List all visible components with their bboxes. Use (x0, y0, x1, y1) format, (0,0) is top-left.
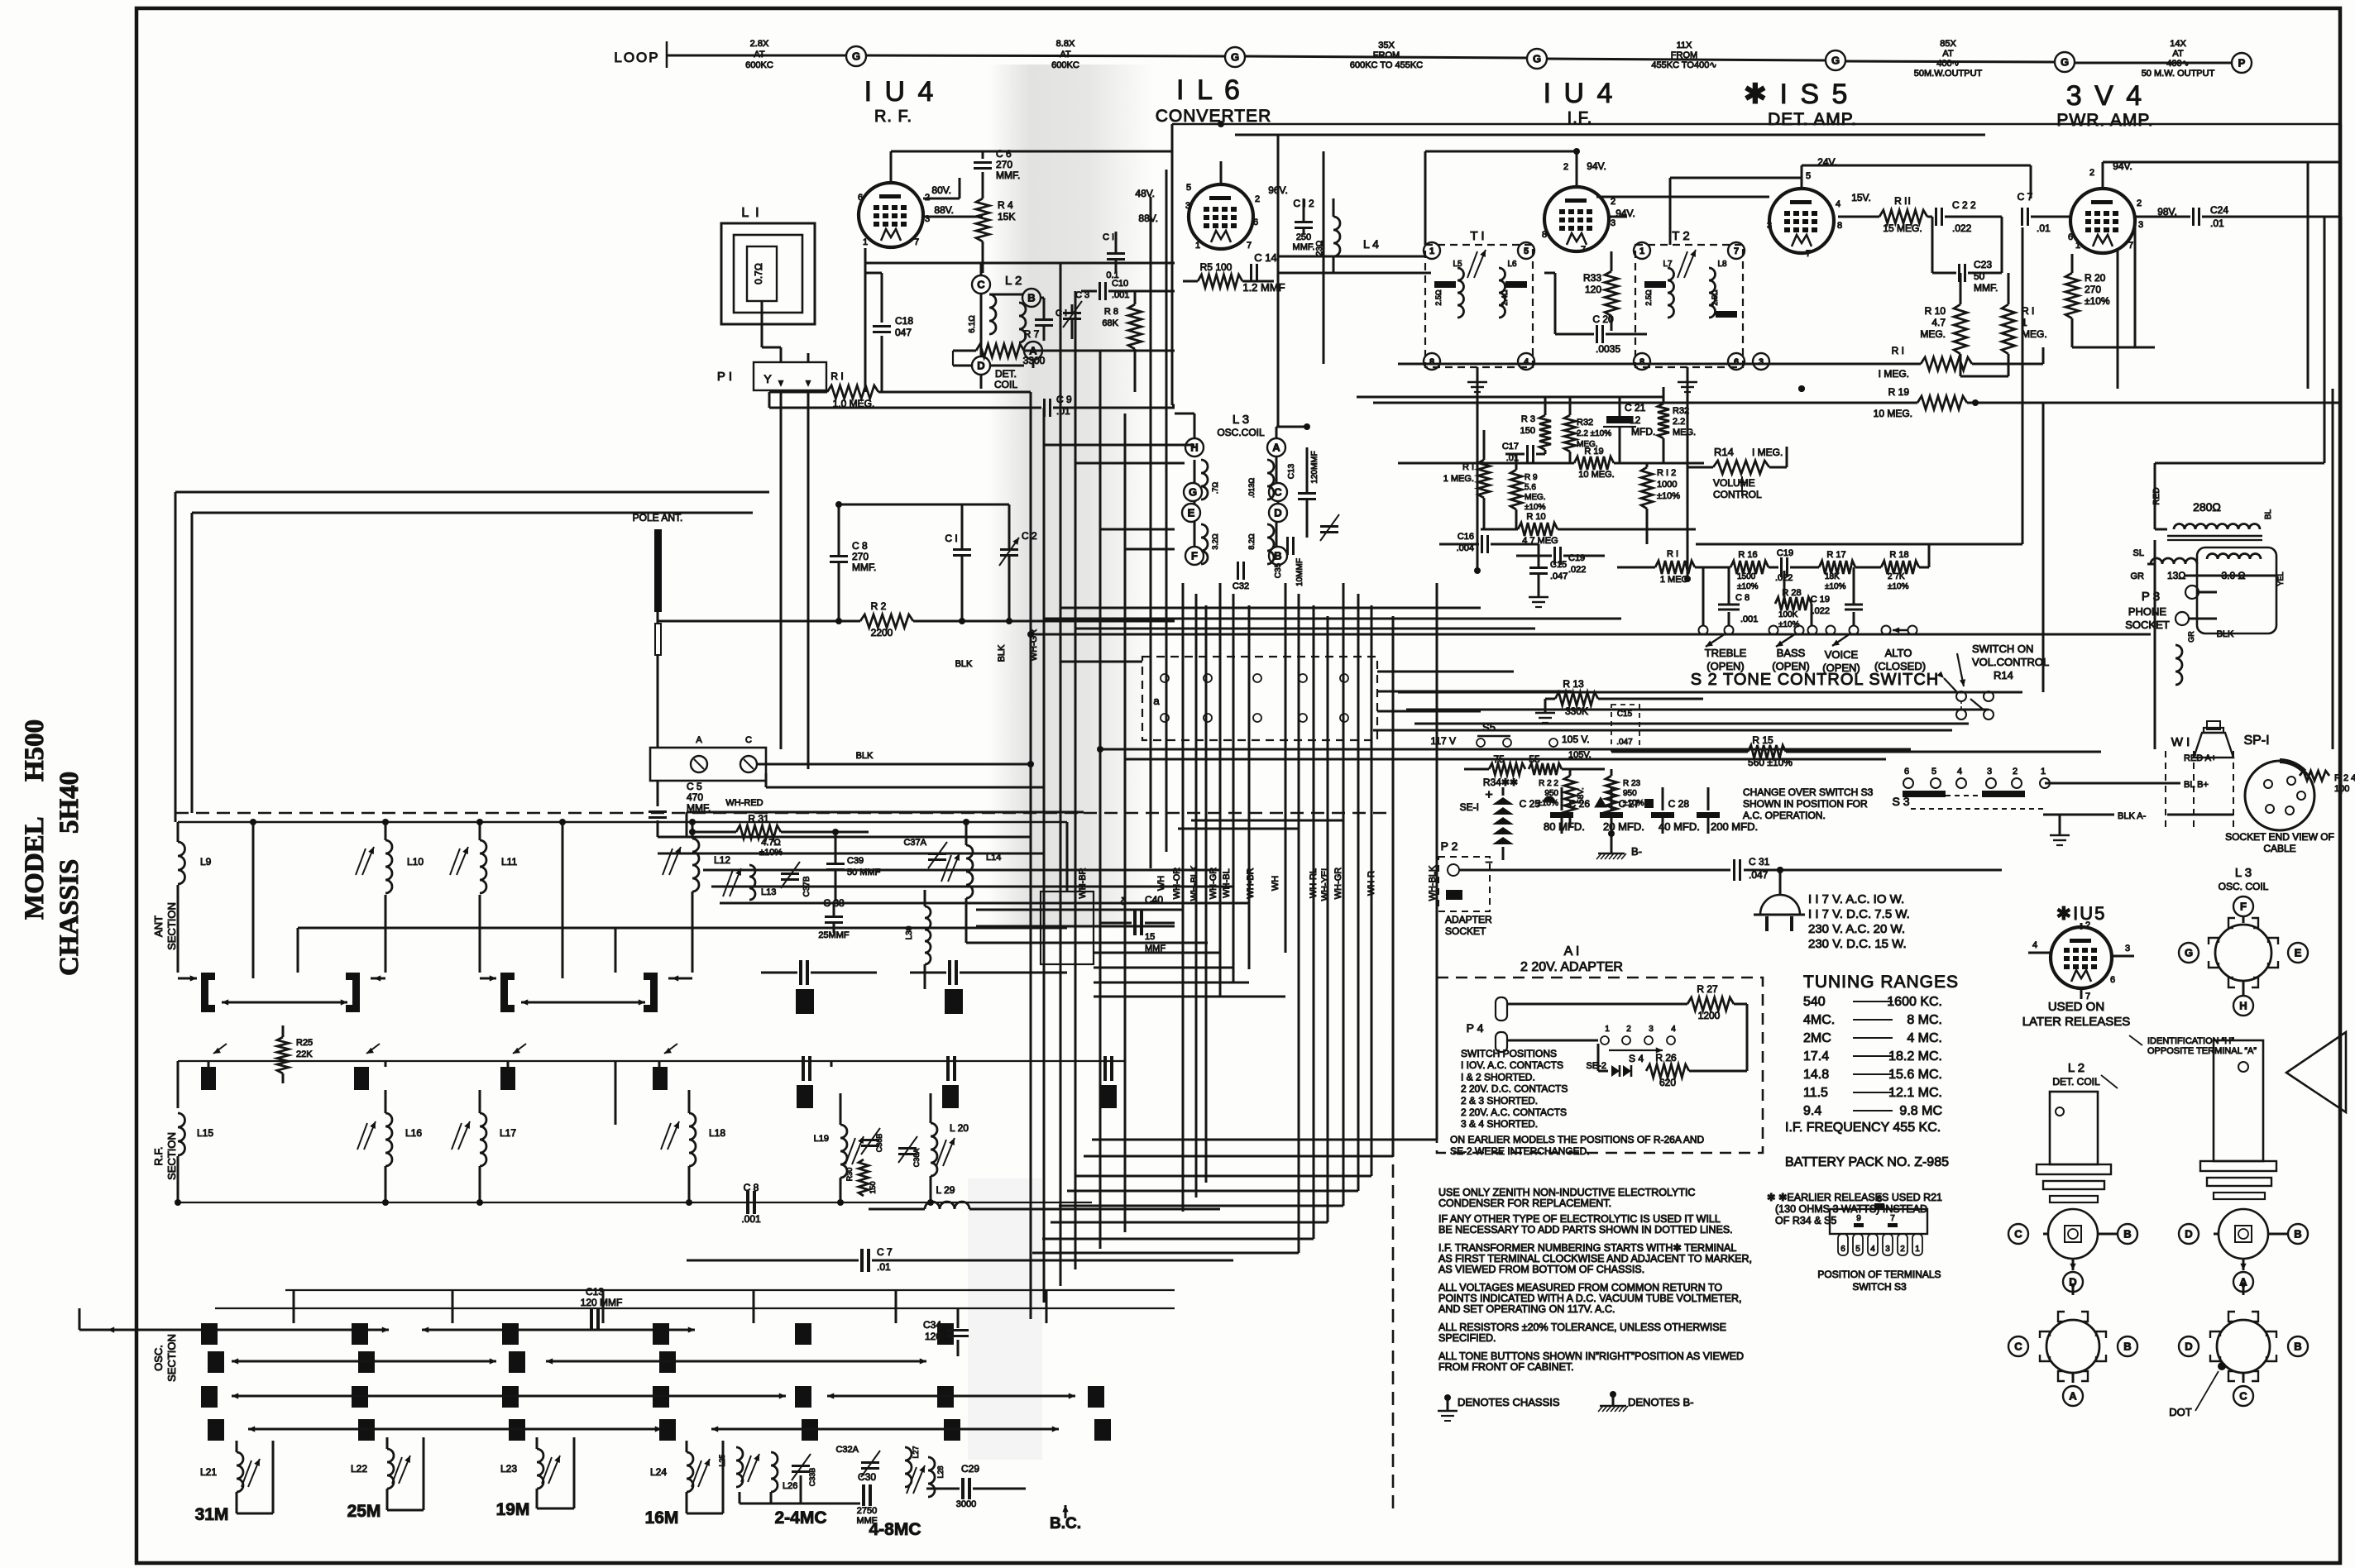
wire stair extra legs (1084, 1155, 1393, 1158)
svg-text:DENOTES B-: DENOTES B- (1628, 1396, 1693, 1408)
svg-text:3: 3 (1885, 1245, 1890, 1254)
svg-text:1: 1 (1915, 1245, 1920, 1254)
wire pwr cathode vertical (2117, 248, 2119, 389)
capacitor C15 .047 mid (1529, 566, 1548, 569)
resistor R3 150 (1539, 415, 1551, 450)
svg-text:MMF.: MMF. (852, 562, 876, 573)
svg-text:6: 6 (2110, 975, 2115, 985)
svg-text:18.2 MC.: 18.2 MC. (1888, 1049, 1942, 1064)
wire right verticals (2340, 124, 2342, 217)
svg-text:C19: C19 (1777, 548, 1793, 558)
capacitor C2 variable (1000, 548, 1018, 551)
svg-text:470: 470 (687, 791, 703, 803)
svg-text:19M: 19M (496, 1500, 530, 1519)
svg-text:4MC.: 4MC. (1803, 1013, 1835, 1027)
svg-text:10 MEG.: 10 MEG. (1874, 408, 1912, 419)
svg-text:2: 2 (2137, 198, 2142, 208)
loop line (667, 55, 846, 57)
wire right trunk full (2340, 217, 2343, 794)
svg-text:G: G (1533, 53, 1541, 65)
coil L24 (687, 1452, 693, 1492)
svg-text:1 MEG: 1 MEG (1660, 575, 1688, 585)
svg-text:.047: .047 (1616, 738, 1633, 747)
osc bottom wires (739, 1492, 741, 1503)
svg-text:F: F (2240, 901, 2247, 913)
arrow between sockets (2072, 1287, 2075, 1295)
resistor R4 15K (982, 172, 984, 198)
svg-text:1000: 1000 (1657, 480, 1677, 490)
svg-text:AT: AT (1942, 49, 1954, 59)
svg-text:22K: 22K (296, 1049, 313, 1059)
svg-text:L24: L24 (650, 1466, 667, 1478)
svg-text:AS FIRST TERMINAL CLOCKWISE AN: AS FIRST TERMINAL CLOCKWISE AND ADJACENT… (1438, 1253, 1752, 1264)
svg-text:R 26: R 26 (1655, 1052, 1677, 1064)
svg-text:AND SET OPERATING ON 117V. A.C: AND SET OPERATING ON 117V. A.C. (1438, 1303, 1615, 1315)
svg-text:ALTO: ALTO (1885, 647, 1912, 659)
capacitor C23 50MMF (1958, 264, 1960, 282)
svg-text:C30: C30 (858, 1471, 876, 1483)
svg-text:4: 4 (1671, 1025, 1676, 1034)
svg-text:L8: L8 (1717, 260, 1727, 269)
resistor R16 1500 (1730, 561, 1769, 574)
svg-text:3: 3 (1649, 1025, 1654, 1034)
svg-text:12.1 MC.: 12.1 MC. (1888, 1086, 1942, 1100)
node G5 (2055, 52, 2075, 72)
svg-text:R I: R I (1667, 549, 1678, 559)
wire trunk v left (175, 492, 177, 813)
svg-text:WH: WH (1271, 876, 1280, 891)
coil L26 (771, 1452, 778, 1492)
svg-text:SECTION: SECTION (165, 1132, 178, 1180)
svg-text:2 & 3 SHORTED.: 2 & 3 SHORTED. (1461, 1095, 1538, 1107)
svg-text:88V.: 88V. (934, 204, 954, 216)
svg-text:CONVERTER: CONVERTER (1156, 107, 1271, 126)
ant inner bus (298, 927, 1067, 930)
svg-text:TREBLE: TREBLE (1705, 647, 1747, 659)
resistor R13 330K (1544, 705, 1547, 713)
coil L11 (479, 822, 481, 840)
svg-text:DOT: DOT (2169, 1406, 2192, 1418)
svg-text:270: 270 (2085, 284, 2101, 295)
svg-text:R 17: R 17 (1826, 550, 1845, 560)
svg-text:4: 4 (1836, 199, 1840, 209)
svg-text:ALL TONE BUTTONS SHOWN IN”RIGH: ALL TONE BUTTONS SHOWN IN”RIGHT”POSITION… (1438, 1350, 1744, 1362)
svg-text:C35: C35 (1274, 562, 1283, 578)
svg-text:15: 15 (1145, 932, 1155, 942)
svg-text:7: 7 (1247, 241, 1252, 251)
svg-text:FROM: FROM (1373, 50, 1400, 60)
wire RF cathode down (864, 248, 867, 347)
node P (2232, 53, 2252, 73)
svg-text:6: 6 (2068, 232, 2073, 242)
svg-text:R 10: R 10 (1925, 305, 1946, 317)
tube V4 top lead (1801, 174, 1803, 189)
osc row arrow lines (232, 1360, 496, 1363)
svg-text:8.2Ω: 8.2Ω (1247, 533, 1256, 550)
ant switch pair 2 (500, 973, 508, 1012)
rf bottom bus (178, 1202, 1092, 1203)
svg-text:1: 1 (2041, 767, 2046, 777)
svg-text:2.2 ±10%: 2.2 ±10% (1577, 429, 1611, 438)
svg-text:G: G (2061, 56, 2069, 69)
svg-text:LOOP: LOOP (614, 50, 659, 65)
svg-text:SHOWN IN POSITION FOR: SHOWN IN POSITION FOR (1743, 798, 1868, 810)
svg-text:MEG.: MEG. (1920, 328, 1946, 340)
resistor R26 620 (1646, 1064, 1689, 1078)
osc switch column 2 (352, 1323, 368, 1345)
svg-text:D: D (2185, 1341, 2192, 1353)
resistor R32 2.2MEG a (1564, 415, 1576, 452)
svg-text:L10: L10 (407, 856, 424, 868)
svg-text:2: 2 (2089, 168, 2094, 178)
wire long row 760 (1075, 628, 1535, 630)
resistor R22 950 (1564, 776, 1576, 815)
svg-text:SECTION: SECTION (165, 902, 178, 950)
svg-text:31M: 31M (195, 1505, 229, 1524)
svg-text:C18: C18 (895, 315, 913, 327)
svg-text:G: G (1831, 55, 1840, 67)
bottom socket right (2217, 1320, 2270, 1373)
svg-text:L 20: L 20 (950, 1122, 969, 1134)
svg-text:2.5Ω: 2.5Ω (1711, 289, 1719, 306)
wire long row 748 (1044, 618, 1621, 620)
svg-text:VOICE: VOICE (1825, 648, 1859, 661)
svg-text:C39: C39 (847, 856, 864, 866)
svg-text:δ: δ (1121, 896, 1127, 907)
svg-text:BLK: BLK (856, 751, 874, 761)
svg-text:BE NECESSARY TO ADD PARTS SHOW: BE NECESSARY TO ADD PARTS SHOWN IN DOTTE… (1438, 1224, 1733, 1236)
wire bundle legs to osc section (1032, 1252, 1299, 1255)
capacitor C7 .01 det (2021, 208, 2023, 226)
wire bias bus 560b (1398, 462, 1545, 465)
capacitor C10 .001 (1099, 282, 1101, 300)
coil L13 (749, 865, 755, 900)
svg-text:C34: C34 (923, 1319, 941, 1331)
capacitor C4 trimmer (1320, 525, 1338, 528)
svg-text:4: 4 (1870, 1245, 1875, 1254)
svg-text:2: 2 (1255, 194, 1260, 204)
svg-text:.013Ω: .013Ω (1247, 478, 1256, 499)
svg-text:C29: C29 (961, 1463, 979, 1475)
svg-text:L5: L5 (1453, 260, 1462, 269)
resistor R12 1000 (1641, 467, 1653, 509)
svg-text:2 7K: 2 7K (1888, 572, 1905, 581)
resistor R9 5.6MEG (1510, 470, 1522, 509)
svg-text:100K: 100K (1778, 610, 1798, 619)
ant right box (1041, 892, 1094, 964)
svg-text:2.2: 2.2 (1673, 417, 1685, 427)
svg-text:a: a (1153, 695, 1160, 707)
svg-text:C I: C I (945, 533, 957, 544)
svg-text:7: 7 (1734, 246, 1739, 256)
resistor R10 47MEG (1518, 523, 1558, 536)
wire bus h1 (890, 151, 893, 168)
coil L27 (905, 1447, 912, 1487)
resistor R33 120 (1605, 271, 1618, 316)
svg-text:C: C (2014, 1341, 2022, 1353)
svg-text:C 9: C 9 (1056, 394, 1072, 405)
junction dots round2 (1474, 567, 1481, 574)
svg-text:C 7: C 7 (877, 1246, 893, 1258)
svg-text:14X: 14X (2170, 39, 2186, 49)
adapter A1 dashed box (1437, 978, 1763, 1153)
capacitor C11 0.1 (1107, 252, 1125, 255)
wire T1 secondary drop (1477, 380, 1479, 571)
AC plug pilot (1760, 895, 1800, 915)
svg-text:BATTERY PACK NO. Z-985: BATTERY PACK NO. Z-985 (1785, 1155, 1949, 1169)
wire BLK bus from terminals (757, 763, 1031, 766)
resistor R32 2.2MEG b (1658, 404, 1669, 438)
svg-text:T 2: T 2 (1672, 229, 1689, 243)
svg-text:15V.: 15V. (1851, 192, 1871, 203)
svg-text:D: D (1274, 507, 1281, 519)
svg-text:.047: .047 (1550, 571, 1568, 581)
svg-text:.022: .022 (1812, 606, 1830, 616)
svg-text:R 19: R 19 (1584, 447, 1603, 457)
svg-text:WH-OR: WH-OR (1172, 868, 1182, 900)
svg-text:SE-2 WERE INTERCHANGED.: SE-2 WERE INTERCHANGED. (1450, 1145, 1590, 1157)
svg-text:MFD.: MFD. (1631, 426, 1655, 437)
svg-text:B: B (1274, 550, 1281, 562)
svg-text:4.7: 4.7 (1931, 317, 1946, 328)
capacitor C24 .01 (2192, 208, 2195, 226)
svg-text:.0035: .0035 (1596, 343, 1620, 355)
capacitor C31 .047 (1497, 869, 1730, 872)
svg-text:9.4: 9.4 (1803, 1104, 1821, 1118)
wire det-tone vertical b (2042, 403, 2045, 692)
switch S3 terminals (1903, 778, 1913, 788)
svg-text:I MEG.: I MEG. (1879, 368, 1909, 380)
resistor R17 18K (1819, 561, 1855, 574)
svg-text:L11: L11 (501, 856, 517, 868)
svg-text:120: 120 (925, 1331, 941, 1342)
svg-text:1 MEG.: 1 MEG. (1443, 474, 1474, 484)
svg-text:C: C (2014, 1228, 2022, 1241)
svg-text:A I: A I (1564, 944, 1580, 958)
svg-text:RED A+: RED A+ (2184, 753, 2216, 763)
resistor R7 3300 (980, 375, 983, 389)
svg-text:E: E (1188, 507, 1195, 519)
svg-text:C 8: C 8 (852, 540, 868, 552)
antenna terminal block (650, 748, 766, 781)
svg-text:I I 7 V. D.C. 7.5 W.: I I 7 V. D.C. 7.5 W. (1808, 907, 1910, 921)
svg-text:230 V. A.C. 20 W.: 230 V. A.C. 20 W. (1808, 922, 1905, 936)
wire bus h2 (983, 151, 1172, 153)
svg-text:C16: C16 (1458, 532, 1474, 542)
resistor R8 68K (1128, 304, 1142, 349)
svg-text:AS VIEWED FROM BOTTOM OF CHASS: AS VIEWED FROM BOTTOM OF CHASSIS. (1438, 1264, 1644, 1275)
svg-text:VOL.CONTROL: VOL.CONTROL (1972, 656, 2049, 668)
svg-text:P 3: P 3 (2142, 590, 2160, 604)
osc switch column 4 (653, 1323, 669, 1345)
resistor R24 100 (2300, 771, 2329, 781)
svg-text:P 4: P 4 (1467, 1021, 1484, 1035)
svg-text:R 2 4: R 2 4 (2334, 773, 2355, 783)
speaker SP-1 (2204, 728, 2223, 733)
svg-text:I.F. TRANSFORMER NUMBERING S: I.F. TRANSFORMER NUMBERING STARTS WITH✱ … (1438, 1242, 1736, 1254)
capacitor C32A trimmer (861, 1461, 879, 1464)
svg-text:8.8X: 8.8X (1056, 39, 1075, 49)
resistor R11 15MEG (1838, 216, 1879, 218)
coil L4 (1333, 217, 1340, 256)
svg-text:11.5: 11.5 (1803, 1086, 1828, 1100)
svg-text:9: 9 (1856, 1214, 1861, 1223)
svg-text:.7Ω: .7Ω (1211, 482, 1219, 495)
svg-text:L I: L I (741, 206, 760, 220)
svg-text:270: 270 (852, 551, 869, 562)
svg-text:.001: .001 (1740, 614, 1758, 624)
svg-text:105 V.: 105 V. (1562, 734, 1590, 745)
osc bus arrows (108, 1329, 389, 1331)
svg-text:W I: W I (2171, 735, 2190, 749)
svg-text:DET.: DET. (995, 368, 1017, 380)
svg-text:WH-R: WH-R (1367, 871, 1376, 896)
svg-text:L9: L9 (200, 856, 212, 868)
svg-text:50 M.W. OUTPUT: 50 M.W. OUTPUT (2142, 69, 2215, 79)
svg-text:WH: WH (1156, 876, 1166, 891)
wire converter drop a (1277, 135, 1280, 427)
coil L15 (177, 1061, 179, 1108)
svg-text:P 2: P 2 (1441, 839, 1458, 853)
capacitor C16 .004 (1481, 535, 1483, 553)
coil L22 (387, 1449, 394, 1489)
coil L19 (840, 1125, 847, 1178)
wire trunk h 595 (175, 491, 769, 494)
capacitor C15 dashed (1611, 705, 1639, 751)
coil L17 (480, 1113, 486, 1166)
resistor R30 150 (859, 1159, 869, 1196)
svg-text:950: 950 (1623, 789, 1637, 798)
rf contact blocks (201, 1067, 216, 1090)
B- symbol power (1611, 834, 1613, 847)
svg-text:A: A (696, 735, 702, 745)
rf mid verticals (208, 1061, 210, 1067)
svg-text:L13: L13 (761, 887, 776, 897)
wire stair steps right (1178, 828, 1299, 830)
wire pwr plate bus (2102, 162, 2104, 174)
capacitor C9 .01 (769, 407, 1041, 409)
wire plate RF to C6 (923, 198, 960, 200)
svg-text:4-8MC: 4-8MC (869, 1520, 921, 1539)
svg-text:±10%: ±10% (1737, 582, 1759, 591)
svg-text:I IOV. A.C. CONTACTS: I IOV. A.C. CONTACTS (1461, 1059, 1563, 1071)
svg-text:15K: 15K (998, 211, 1015, 222)
svg-text:120: 120 (1585, 284, 1601, 295)
svg-text:✱ ✱EARLIER RELEASES USED R2: ✱ ✱EARLIER RELEASES USED R21 (1767, 1192, 1942, 1203)
wire left drop from P1 (768, 392, 771, 408)
svg-text:3: 3 (2138, 220, 2143, 230)
wire 24V bus (1670, 177, 1802, 179)
svg-text:1: 1 (1639, 246, 1644, 256)
svg-text:L 4: L 4 (1363, 237, 1379, 251)
svg-text:L 3: L 3 (2235, 866, 2252, 880)
osc switch column 1 (201, 1323, 218, 1345)
svg-text:ALL VOLTAGES MEASURED FROM COM: ALL VOLTAGES MEASURED FROM COMMON RETURN… (1438, 1282, 1722, 1293)
svg-text:L28: L28 (936, 1465, 945, 1478)
junction dots ant (835, 618, 842, 624)
svg-text:C 2 2: C 2 2 (1952, 199, 1976, 211)
svg-text:600KC TO 455KC: 600KC TO 455KC (1350, 60, 1423, 70)
svg-text:1: 1 (863, 237, 868, 247)
svg-text:15 MEG.: 15 MEG. (1883, 222, 1922, 234)
svg-text:ON EARLIER MODELS THE POSIT: ON EARLIER MODELS THE POSITIONS OF R-26A… (1450, 1134, 1705, 1145)
svg-text:WH-BL: WH-BL (1222, 868, 1232, 897)
wire conv top (1220, 161, 1223, 170)
osc switch column 7 (1088, 1386, 1104, 1408)
wires horizontal middle band (1044, 444, 1194, 447)
svg-text:R25: R25 (296, 1038, 313, 1048)
svg-text:L23: L23 (500, 1463, 517, 1475)
svg-text:R 2: R 2 (871, 600, 887, 612)
svg-text:B: B (2123, 1228, 2131, 1241)
capacitor C1 det (1035, 318, 1053, 321)
svg-text:DENOTES CHASSIS: DENOTES CHASSIS (1458, 1396, 1560, 1408)
svg-text:SE-I: SE-I (1460, 801, 1479, 813)
svg-text:9.8 MC: 9.8 MC (1899, 1104, 1942, 1118)
svg-text:S 2 TONE CONTROL SWITCH: S 2 TONE CONTROL SWITCH (1691, 671, 1939, 689)
svg-text:B: B (2294, 1228, 2301, 1241)
wire L1 to P1 (761, 324, 763, 347)
svg-text:I I 7 V. A.C. IO W.: I I 7 V. A.C. IO W. (1808, 892, 1904, 906)
svg-text:6: 6 (1734, 357, 1739, 367)
svg-text:SECTION: SECTION (165, 1334, 178, 1382)
svg-text:2.8X: 2.8X (750, 39, 769, 49)
rf arrows top (213, 1044, 227, 1054)
svg-text:C13: C13 (1287, 463, 1296, 479)
svg-text:A.C. OPERATION.: A.C. OPERATION. (1743, 810, 1826, 821)
svg-text:20 MFD.: 20 MFD. (1603, 820, 1644, 833)
svg-text:±10%: ±10% (1657, 491, 1680, 501)
svg-text:OF R34 & S5: OF R34 & S5 (1775, 1215, 1836, 1226)
svg-text:WH-GR: WH-GR (1333, 868, 1343, 900)
svg-text:BLK: BLK (2217, 629, 2234, 639)
svg-text:400∿: 400∿ (1936, 59, 1960, 69)
capacitor C6 270MMF (891, 151, 983, 153)
resistor R1 1MEG det (2002, 304, 2015, 354)
svg-text:CHANGE OVER SWITCH S3: CHANGE OVER SWITCH S3 (1743, 786, 1874, 798)
svg-text:R I: R I (830, 370, 843, 382)
wire rows to S3 area (1100, 748, 1911, 751)
svg-text:D: D (977, 360, 984, 372)
svg-text:H: H (1190, 442, 1198, 454)
tube V2 1L6 converter (1189, 184, 1253, 249)
svg-text:PWR. AMP.: PWR. AMP. (2056, 111, 2153, 130)
wire bus h3 (1172, 404, 1175, 407)
wire right trunk x2605 (2154, 540, 2156, 749)
svg-text:WH-BR: WH-BR (1078, 868, 1088, 898)
svg-text:3: 3 (1185, 201, 1190, 211)
svg-text:150: 150 (1520, 426, 1535, 436)
svg-text:✱ I S 5: ✱ I S 5 (1744, 79, 1850, 110)
svg-text:5: 5 (1186, 183, 1191, 193)
svg-text:2: 2 (1626, 1025, 1631, 1034)
svg-text:H500: H500 (20, 719, 50, 782)
ant section top bus (178, 821, 1067, 823)
capacitor C3 trimmer (1063, 312, 1081, 314)
coil L23 (537, 1449, 543, 1489)
svg-text:L6: L6 (1507, 260, 1517, 269)
svg-text:10 MEG.: 10 MEG. (1578, 470, 1614, 480)
svg-text:FROM FRONT OF CABINET.: FROM FRONT OF CABINET. (1438, 1361, 1574, 1373)
svg-text:50M.W.OUTPUT: 50M.W.OUTPUT (1914, 69, 1983, 79)
svg-text:1: 1 (2075, 241, 2080, 251)
svg-text:11X: 11X (1677, 41, 1692, 50)
svg-text:280Ω: 280Ω (2193, 500, 2221, 514)
svg-text:AT: AT (754, 50, 765, 60)
wire long row 735 (1060, 607, 1481, 610)
svg-text:B: B (1027, 292, 1035, 304)
resistor R20 270 (2065, 273, 2079, 318)
